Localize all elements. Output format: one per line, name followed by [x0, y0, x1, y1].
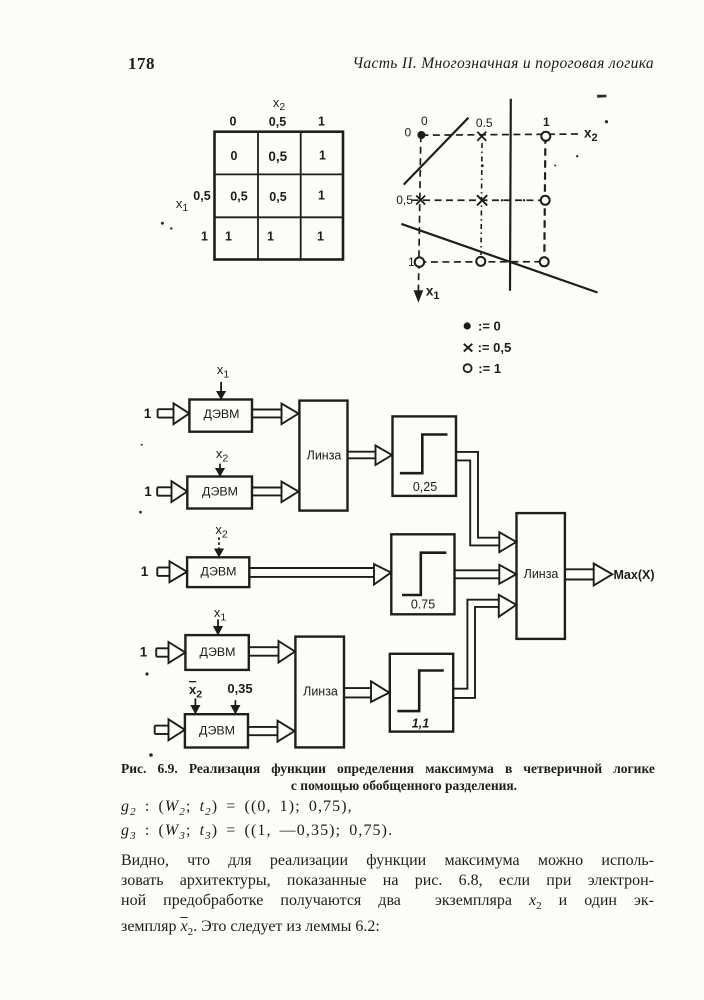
- svg-text:1: 1: [201, 230, 208, 244]
- arrowhead T1 wire into Linza3: [499, 532, 516, 552]
- svg-text:Линза: Линза: [524, 567, 559, 581]
- output arrow Linza3 to Max(X): [565, 564, 612, 586]
- svg-text:x1: x1: [426, 283, 440, 302]
- svg-text:x2: x2: [189, 682, 202, 701]
- x2bar arrow into DEVM5: [191, 698, 199, 713]
- wire T1 to Linza3 (channel): [456, 452, 500, 546]
- input arrow row4: [156, 642, 185, 663]
- 0,35 arrow into DEVM5: [231, 700, 239, 713]
- svg-text:0: 0: [421, 114, 428, 128]
- formula g2: [121, 798, 353, 818]
- marker X (0.5,0): [477, 132, 486, 141]
- block DEVM 2: [187, 477, 252, 509]
- table frame: [215, 132, 344, 260]
- svg-text:0.5: 0.5: [476, 116, 493, 130]
- arrowhead T3 wire into Linza3: [499, 595, 517, 617]
- dashed vertical x1 axis col 0: [418, 135, 420, 292]
- arrow DEVM1 to Linza1: [252, 404, 299, 424]
- input arrow row1: [158, 403, 190, 424]
- body paragraph: [121, 851, 654, 943]
- svg-text:0: 0: [230, 115, 237, 129]
- svg-text::= 0,5: := 0,5: [478, 340, 512, 355]
- table column line 2: [300, 132, 302, 260]
- svg-text:ДЭВМ: ДЭВМ: [201, 564, 237, 578]
- table row line 2: [215, 216, 344, 218]
- svg-text:0,5: 0,5: [396, 193, 413, 207]
- caption line 2: [137, 778, 671, 794]
- block Linza 1: [299, 401, 347, 511]
- input arrow row5: [155, 719, 185, 740]
- svg-text:Линза: Линза: [307, 449, 342, 463]
- arrow DEVM2 to Linza1: [252, 482, 299, 502]
- svg-text:1: 1: [319, 149, 326, 163]
- svg-text:0,5: 0,5: [269, 190, 286, 204]
- threshold block T2: [391, 534, 454, 614]
- threshold block T3: [390, 654, 453, 732]
- svg-text:1: 1: [225, 230, 232, 244]
- lower diagonal line: [401, 224, 597, 293]
- svg-text:x1: x1: [176, 196, 189, 214]
- stray dot in graph: [481, 164, 484, 167]
- svg-text:1: 1: [317, 230, 324, 244]
- svg-text:x2: x2: [216, 446, 229, 465]
- svg-text:0: 0: [405, 126, 412, 140]
- x2 arrow into DEVM2: [216, 464, 224, 476]
- svg-text::= 0: := 0: [478, 319, 501, 334]
- svg-text:1: 1: [144, 406, 152, 421]
- legend X: [464, 344, 473, 352]
- block Linza 3 (output lens): [517, 513, 565, 639]
- svg-text:1: 1: [318, 115, 325, 129]
- step curve T3: [397, 671, 443, 712]
- caption line 1: [121, 761, 655, 794]
- svg-text:0,25: 0,25: [413, 480, 437, 494]
- speck below row5 arrow: [149, 753, 153, 757]
- page number 178: [128, 54, 155, 74]
- speck mid graph: [576, 155, 578, 157]
- step curve T1: [400, 435, 448, 474]
- arrow Linza1 to T1: [348, 446, 393, 466]
- legend O: [464, 364, 472, 372]
- svg-text:x2: x2: [273, 95, 286, 113]
- marker dot (0,0): [417, 131, 425, 139]
- running head: [294, 55, 654, 73]
- input arrow row3: [157, 561, 187, 582]
- arrow Linza2 to T3: [344, 681, 389, 702]
- svg-text:Max(X): Max(X): [614, 568, 655, 582]
- table row line 1: [215, 173, 344, 175]
- svg-text:Линза: Линза: [303, 685, 338, 699]
- svg-text:x1: x1: [217, 362, 230, 381]
- block DEVM 1: [189, 400, 252, 432]
- svg-text:1: 1: [140, 645, 148, 660]
- svg-text:x2: x2: [215, 522, 228, 541]
- dashed horizontal row 0,5: [412, 199, 546, 201]
- x1 axis arrowhead: [414, 290, 424, 303]
- table column line 1: [257, 132, 259, 260]
- svg-text:0.75: 0.75: [411, 598, 435, 612]
- marker O (0.5,1): [476, 257, 485, 266]
- arrow T2 to Linza3: [455, 565, 517, 584]
- dashed horizontal x2 axis row 0: [421, 134, 582, 135]
- svg-text:x1: x1: [214, 605, 227, 624]
- speck left diagram: [145, 672, 148, 675]
- arrow DEVM4 to Linza2: [249, 641, 295, 663]
- solid vertical separator line: [509, 99, 512, 291]
- svg-text:ДЭВМ: ДЭВМ: [202, 484, 238, 498]
- legend dot: [464, 322, 471, 329]
- svg-text:1: 1: [318, 189, 325, 203]
- svg-text:0: 0: [231, 149, 238, 163]
- svg-text:0,5: 0,5: [230, 190, 247, 204]
- dashed vertical col 1: [544, 136, 545, 261]
- marker X (0.5,0.5): [477, 195, 487, 205]
- svg-text:1: 1: [267, 230, 274, 244]
- svg-text:ДЭВМ: ДЭВМ: [204, 407, 240, 421]
- marker O (1,0.5): [541, 196, 550, 205]
- dashed horizontal row 1: [419, 261, 544, 263]
- dash-dot vertical col 0,5: [481, 143, 482, 255]
- svg-text::= 1: := 1: [478, 361, 501, 376]
- threshold block T1: [393, 416, 457, 496]
- block Linza 2: [295, 637, 344, 748]
- arrow DEVM3 to T2 (long): [249, 564, 391, 584]
- svg-text:0,5: 0,5: [269, 115, 286, 129]
- block DEVM 5: [185, 714, 248, 747]
- x1 arrow into DEVM1: [217, 382, 225, 399]
- speck left of table 1: [161, 222, 164, 225]
- marker O (1,0): [541, 132, 550, 141]
- block DEVM 4: [185, 635, 248, 670]
- arrow DEVM5 to Linza2: [248, 721, 295, 742]
- svg-text:0,35: 0,35: [227, 681, 252, 696]
- marker X (0,0.5): [416, 196, 425, 205]
- svg-text:ДЭВМ: ДЭВМ: [199, 723, 235, 737]
- speck dot right: [605, 120, 608, 123]
- input arrow row2: [157, 481, 187, 502]
- svg-text:ДЭВМ: ДЭВМ: [200, 645, 236, 659]
- svg-text:1: 1: [141, 564, 149, 579]
- block DEVM 3: [187, 557, 249, 587]
- svg-text:1: 1: [408, 255, 415, 269]
- svg-text:x2: x2: [584, 125, 598, 144]
- upper diagonal line: [404, 118, 469, 185]
- speck top right of graph: [597, 95, 606, 98]
- formula g3: [121, 822, 393, 842]
- wire T3 to Linza3 (channel): [453, 600, 500, 698]
- svg-text:1: 1: [543, 115, 550, 129]
- x1 arrow into DEVM4: [214, 619, 222, 634]
- svg-text:1: 1: [144, 484, 152, 499]
- marker O (1,1): [540, 257, 549, 266]
- dash-dot dots row 0,5 right: [501, 199, 503, 201]
- svg-text:1,1: 1,1: [412, 717, 429, 731]
- marker O (0,1): [415, 257, 424, 266]
- step curve T2: [402, 553, 446, 595]
- svg-text:0,5: 0,5: [268, 149, 287, 164]
- speck left of table 2: [170, 227, 172, 229]
- x2 dotted arrow into DEVM3: [215, 537, 223, 556]
- svg-text:0,5: 0,5: [193, 189, 210, 203]
